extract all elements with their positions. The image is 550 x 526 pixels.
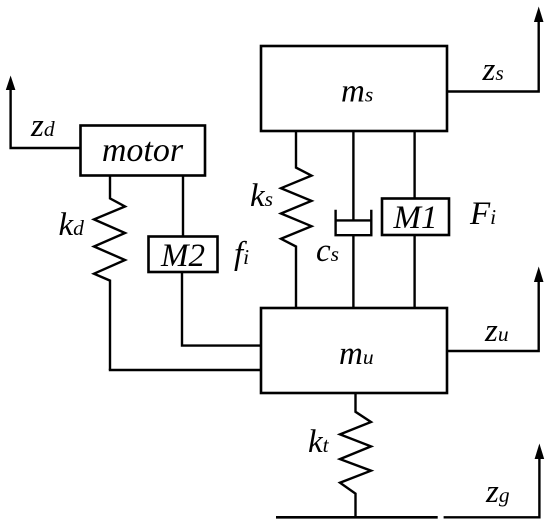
arrow zu [447,267,544,352]
wire kd to mu [109,369,261,371]
spring kd [94,175,125,370]
spring ks [281,131,312,308]
actuator M1 box [382,199,449,236]
arrow zg [444,444,545,518]
mass mu box [261,308,447,393]
wire ms to M1 [413,131,415,199]
ground [276,516,438,519]
svg-text:M1: M1 [393,200,438,236]
arrow zd [6,76,80,149]
svg-text:M2: M2 [160,238,205,274]
wire M2 to mu [182,272,261,346]
spring kt [340,393,371,518]
damper cs [336,131,372,308]
motor box [81,126,206,176]
arrow zs [447,7,544,92]
mass M2 box [149,237,218,273]
mass ms box [261,46,447,131]
wire M1 to mu [413,235,415,308]
wire motor to M2 [182,175,184,237]
svg-text:motor: motor [102,132,184,169]
